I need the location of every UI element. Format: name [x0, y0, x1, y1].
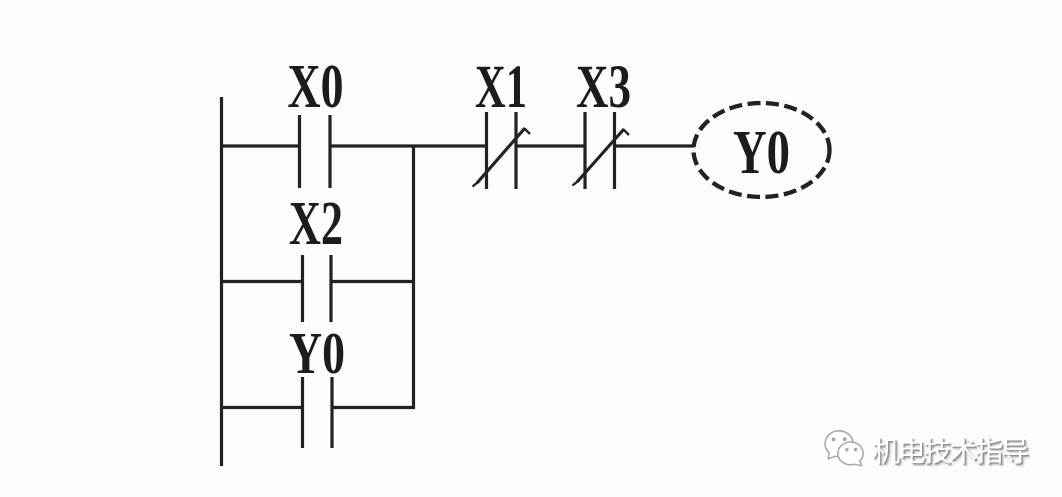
svg-text:Y0: Y0 — [733, 119, 790, 187]
svg-text:X0: X0 — [288, 53, 344, 121]
left power rail — [220, 97, 223, 466]
wire X2 to branch vertical — [331, 280, 415, 283]
watermark wechat logo — [815, 423, 875, 473]
wire Y0 contact to branch vertical — [332, 406, 415, 409]
contact X0 — [300, 115, 331, 188]
node branch vertical — [412, 146, 415, 408]
contact X1 (normally closed) — [473, 112, 531, 189]
watermark text — [872, 430, 1027, 470]
wire X3 to coil — [615, 144, 695, 147]
wire X1 to X3 — [516, 144, 586, 147]
coil Y0 ellipse — [694, 103, 830, 197]
wire rung1 left rail to X0 — [220, 144, 300, 147]
contact Y0 — [303, 377, 333, 448]
wire rung3 left rail to Y0 contact — [220, 406, 303, 409]
contact X2 — [303, 255, 332, 322]
svg-text:X3: X3 — [576, 54, 631, 121]
wire X0 to X1 through branch node — [330, 144, 487, 147]
wire rung2 left rail to X2 — [220, 280, 303, 283]
contact X3 (normally closed) — [573, 112, 630, 189]
svg-text:Y0: Y0 — [289, 320, 345, 386]
svg-text:X1: X1 — [475, 54, 527, 121]
svg-text:X2: X2 — [289, 190, 343, 258]
